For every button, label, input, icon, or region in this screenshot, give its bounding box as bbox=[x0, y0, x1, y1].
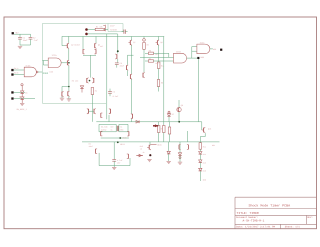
wire rail2 bbox=[96, 121, 202, 123]
net label MODE bbox=[43, 72, 49, 75]
svg-text:R12: R12 bbox=[140, 145, 143, 148]
resistor R10 bbox=[168, 127, 171, 134]
svg-text:22pF: 22pF bbox=[120, 65, 124, 68]
label R5 bbox=[72, 80, 78, 83]
transistor Q17 bbox=[147, 144, 151, 150]
transistor QC6 bbox=[115, 54, 117, 59]
svg-text:Q18: Q18 bbox=[208, 128, 211, 131]
diode D12 bbox=[199, 160, 202, 163]
wire TP2 to IC2A bbox=[14, 69, 25, 71]
junction C6 node bbox=[117, 50, 119, 52]
label IC1P bbox=[110, 25, 115, 28]
IC1P pin marks bbox=[103, 25, 105, 31]
label R14 bbox=[161, 65, 164, 68]
transistor Q5e bbox=[109, 108, 111, 114]
svg-text:Q9: Q9 bbox=[181, 104, 183, 107]
wire C6 column bbox=[117, 34, 119, 54]
svg-text:D7: D7 bbox=[172, 113, 174, 116]
svg-text:GND: GND bbox=[203, 179, 206, 182]
svg-text:SG-636: SG-636 bbox=[101, 126, 107, 129]
pad Q17 bbox=[149, 154, 151, 156]
junction row1 bbox=[119, 137, 121, 139]
label Q6 bbox=[98, 44, 100, 47]
wire TP4 to diodes bbox=[14, 91, 25, 93]
wire Q5e to rail2 bbox=[108, 115, 110, 122]
wire TP5 to diodes bbox=[14, 98, 35, 100]
label D13 bbox=[203, 170, 206, 173]
svg-text:IC1C: IC1C bbox=[200, 41, 206, 44]
facing transistor Q5a bbox=[87, 78, 89, 84]
label D11 bbox=[203, 153, 206, 156]
wire between pair bbox=[89, 110, 95, 112]
label X1 line2 bbox=[120, 129, 123, 132]
wire loop left vertical bbox=[41, 24, 43, 104]
wire R8 drop bbox=[158, 122, 160, 126]
svg-text:R11: R11 bbox=[203, 145, 206, 148]
diode D2 bbox=[21, 97, 24, 103]
junction rail2 left bbox=[178, 121, 180, 123]
title block document number label bbox=[236, 216, 258, 219]
wire IC1A input jog bbox=[42, 61, 48, 66]
transistor Q7 bbox=[129, 40, 132, 46]
resistor R11 bbox=[199, 143, 202, 150]
junction facing pair bbox=[89, 80, 91, 82]
transistor Q8 bbox=[156, 40, 159, 46]
wire D9 drop bbox=[179, 142, 181, 153]
wire R2 drop bbox=[143, 37, 145, 39]
svg-text:A-CH-TIMB-M-1: A-CH-TIMB-M-1 bbox=[243, 219, 265, 222]
led D7 bbox=[167, 111, 170, 122]
and gate IC1A bbox=[48, 58, 61, 68]
svg-text:4k7: 4k7 bbox=[100, 45, 103, 48]
wire Q2 base feed bbox=[62, 36, 67, 45]
label junction net bbox=[201, 56, 205, 59]
junction lower bar bbox=[68, 86, 70, 88]
ground G1 bbox=[18, 46, 22, 48]
transistor Q13 bbox=[127, 154, 129, 159]
wire R6 to jog bbox=[154, 52, 169, 54]
diode D13 bbox=[199, 168, 202, 171]
wire rail3 bbox=[82, 141, 220, 143]
label R7 bbox=[149, 58, 151, 61]
svg-text:10uF: 10uF bbox=[23, 39, 29, 42]
capacitor C1 bbox=[18, 38, 22, 46]
label IC1B bbox=[176, 51, 182, 54]
transistor Q3 bbox=[67, 60, 69, 66]
svg-text:R1 10k: R1 10k bbox=[96, 25, 104, 28]
ground G2 bbox=[20, 103, 24, 105]
label Q1 line2 bbox=[101, 129, 106, 132]
nand gate IC2A bbox=[24, 67, 38, 77]
label TP3 net bbox=[14, 72, 19, 75]
label IC1P part bbox=[110, 28, 118, 31]
label R1 bbox=[96, 25, 104, 28]
title block project name text bbox=[249, 203, 291, 207]
label Q2 bbox=[71, 43, 80, 46]
wire R14 down bbox=[158, 69, 160, 80]
transistor Q7c bbox=[130, 74, 132, 80]
wire loop top horizontal bbox=[42, 23, 123, 25]
pin TP1 +5V supply pad bbox=[12, 32, 14, 34]
wire Q3 emitter down bbox=[68, 66, 70, 92]
label row1 net bbox=[122, 137, 126, 140]
label Q17 l1 bbox=[140, 145, 143, 148]
transistor Q5c bbox=[87, 108, 89, 114]
wire TP1 to caps bbox=[14, 33, 31, 35]
label R6 value bbox=[155, 53, 158, 56]
wire R6 left bbox=[145, 52, 148, 54]
svg-text:D12: D12 bbox=[203, 161, 206, 164]
svg-text:4k7: 4k7 bbox=[155, 62, 158, 65]
wire chain end bbox=[199, 171, 201, 181]
junction pad IC1B net bbox=[197, 57, 199, 59]
label R11 bbox=[203, 145, 206, 148]
label chain end bbox=[203, 179, 206, 182]
wire QD emitter bbox=[127, 70, 129, 76]
pin VCC donut bbox=[85, 28, 88, 31]
svg-text:4k7: 4k7 bbox=[155, 53, 158, 56]
wire pair left drop bbox=[82, 36, 84, 49]
label Q9 bbox=[181, 104, 183, 107]
wire R8 down bbox=[158, 133, 160, 142]
svg-text:0.1uF: 0.1uF bbox=[113, 95, 119, 98]
wire R10 drop bbox=[169, 122, 171, 127]
wire gnd rail bbox=[88, 33, 118, 35]
transistor Q6 bbox=[95, 43, 97, 49]
wire loop bottom horizontal bbox=[42, 102, 106, 104]
wire Q8 drop bbox=[158, 36, 160, 40]
pin TP3 input pad bbox=[11, 73, 13, 75]
svg-text:REV:: REV: bbox=[307, 216, 313, 219]
svg-text:TITLE: TIMER: TITLE: TIMER bbox=[237, 211, 259, 215]
svg-text:Q7: Q7 bbox=[133, 41, 135, 44]
svg-text:OUT: OUT bbox=[111, 126, 114, 129]
diode D11 bbox=[199, 152, 202, 155]
transistor Q11 bbox=[127, 131, 129, 136]
label R4b bbox=[95, 90, 97, 93]
label Q8 bbox=[160, 41, 162, 44]
resistor R2 bbox=[143, 43, 146, 73]
svg-text:R7: R7 bbox=[149, 58, 151, 61]
svg-text:OSC: OSC bbox=[120, 129, 123, 132]
label C5 bbox=[113, 90, 119, 97]
wire IC1A output bbox=[61, 62, 67, 64]
label X1 line1 bbox=[120, 126, 122, 129]
label Q17 l2 bbox=[140, 148, 142, 151]
label TP2 net bbox=[14, 67, 19, 70]
diode D1 bbox=[21, 91, 24, 97]
svg-text:R2: R2 bbox=[147, 43, 149, 46]
label R2 bbox=[147, 43, 149, 46]
label rail3 net bbox=[120, 143, 125, 146]
wire R7 to IC1B in2 bbox=[154, 60, 174, 62]
svg-text:R4: R4 bbox=[95, 90, 97, 93]
wire TP3 to IC2A bbox=[14, 74, 25, 76]
label D1 bbox=[25, 91, 28, 94]
label rail3 right net bbox=[212, 144, 215, 147]
title block date text bbox=[236, 225, 276, 228]
diode D8 bbox=[167, 151, 170, 161]
transistor Q7b bbox=[143, 72, 145, 78]
wire Q17 drop bbox=[149, 142, 151, 145]
wire U right bbox=[129, 158, 131, 166]
label R2b bbox=[161, 82, 163, 85]
svg-text:Q8: Q8 bbox=[160, 41, 162, 44]
wire cap bottoms bbox=[20, 44, 31, 46]
title block sheet text bbox=[285, 225, 301, 228]
and gate IC1B bbox=[174, 53, 187, 63]
wire R10 down bbox=[169, 134, 171, 142]
label Q17 net bbox=[157, 144, 161, 147]
label C9 value bbox=[117, 159, 122, 165]
capacitor C2 bbox=[29, 38, 33, 46]
wire IC1C input jog bbox=[192, 47, 197, 59]
wire chain 2 bbox=[199, 154, 201, 160]
lamp LP1 bbox=[143, 39, 146, 42]
wire IC1B output bbox=[187, 57, 198, 59]
diode D4 bbox=[80, 86, 83, 93]
wire chain 3 bbox=[199, 163, 201, 169]
wire R1 to IC1P bbox=[105, 29, 108, 31]
pin TP2 input pad bbox=[11, 69, 13, 71]
pin GND donut bbox=[85, 33, 88, 36]
svg-text:Sheet: 1/1: Sheet: 1/1 bbox=[285, 225, 301, 228]
wire Q4a drop bbox=[61, 87, 63, 92]
wire center column bbox=[89, 55, 91, 77]
wire U bottom bbox=[99, 165, 130, 167]
and gate IC1C bbox=[197, 44, 210, 54]
transistor Q7d bbox=[131, 113, 133, 119]
transistor Q6b bracket bbox=[94, 49, 96, 54]
label IC1A part bbox=[49, 71, 53, 74]
label D12 bbox=[203, 161, 206, 164]
wire rail2 end drop bbox=[201, 122, 203, 130]
title block document number value bbox=[243, 219, 265, 222]
transistor Q4b bbox=[68, 91, 70, 97]
svg-text:D11: D11 bbox=[203, 153, 206, 156]
logic box X1 bbox=[119, 124, 128, 131]
transistor Q5d bbox=[94, 108, 96, 114]
resistor R1 bbox=[95, 28, 105, 30]
transistor Q5 bracket bbox=[83, 49, 85, 54]
capacitor C6 bbox=[115, 63, 119, 68]
transistor Q10 bbox=[101, 131, 103, 136]
label output net bbox=[213, 48, 216, 51]
title block grid bbox=[235, 197, 317, 229]
wire Q7c emitter bbox=[130, 79, 132, 113]
transistor Q15 bbox=[179, 145, 181, 150]
resistor R6 bbox=[148, 52, 153, 54]
transistor Q18 bbox=[202, 127, 205, 133]
label C9 lines bbox=[89, 143, 93, 149]
label Q1 line1 bbox=[101, 126, 107, 129]
wire bracket row1 bar bbox=[101, 137, 129, 139]
oscillator box Q1 bbox=[99, 124, 116, 131]
svg-text:R9: R9 bbox=[161, 82, 163, 85]
svg-text:Q2 BC847: Q2 BC847 bbox=[71, 43, 80, 46]
svg-text:VC: VC bbox=[111, 129, 113, 132]
label C2 value bbox=[33, 36, 39, 42]
svg-text:IC1B: IC1B bbox=[176, 51, 182, 54]
resistor R4b bbox=[91, 88, 94, 104]
svg-text:7408: 7408 bbox=[49, 71, 53, 74]
wire C1 drop bbox=[19, 34, 21, 37]
label Q1 pins bbox=[111, 126, 114, 132]
capacitor C5 bbox=[108, 89, 112, 97]
wire R7 left bbox=[145, 60, 148, 62]
label C1 value bbox=[23, 36, 29, 42]
label D10 bbox=[143, 151, 145, 154]
transistor Q4a bbox=[62, 91, 64, 97]
wire VCC rail top bbox=[62, 36, 164, 38]
svg-text:N$9: N$9 bbox=[213, 48, 216, 51]
transistor Q16 bbox=[187, 145, 189, 150]
wire QD corner bbox=[128, 55, 134, 65]
wire Q7 drop bbox=[130, 37, 132, 41]
wire IC2A output bbox=[38, 71, 42, 73]
junction Q2-IC1A bbox=[68, 62, 70, 64]
diode D5 on rail2 bbox=[136, 121, 139, 124]
capacitor C3 bbox=[122, 30, 128, 34]
resistor R8 bbox=[157, 126, 160, 133]
transistor Q2 bbox=[67, 43, 69, 49]
ground G8 bbox=[147, 160, 151, 162]
svg-text:IC1A: IC1A bbox=[52, 54, 58, 57]
svg-text:N$12: N$12 bbox=[120, 143, 125, 146]
varistor symbol above diodes bbox=[21, 84, 23, 91]
wire donut to R1 bbox=[88, 29, 95, 31]
wire Q17 diag bbox=[151, 143, 157, 145]
wire mid vertical bbox=[106, 34, 108, 119]
svg-text:.1uF: .1uF bbox=[33, 39, 39, 42]
ground G4 bbox=[67, 96, 71, 101]
svg-text:10uF: 10uF bbox=[89, 145, 93, 148]
svg-text:N$3: N$3 bbox=[212, 144, 215, 147]
svg-text:4.7uF: 4.7uF bbox=[117, 159, 122, 162]
wire pair emitter bar bbox=[83, 54, 96, 56]
wire chain 1 bbox=[199, 149, 201, 151]
resistor R14 bbox=[157, 62, 160, 69]
capacitor C9 bbox=[112, 142, 116, 167]
label C6 bbox=[120, 62, 124, 68]
label IC1A bbox=[52, 54, 58, 57]
wire Q8 emitter bbox=[158, 45, 160, 62]
wire right long column bbox=[163, 37, 165, 126]
pin TP6 output pad bbox=[220, 49, 222, 51]
svg-text:R5 10k: R5 10k bbox=[72, 80, 78, 83]
svg-text:1k: 1k bbox=[140, 148, 142, 151]
diode D10 horizontal bbox=[136, 154, 143, 157]
label R7 value bbox=[155, 62, 158, 65]
svg-text:D13: D13 bbox=[203, 170, 206, 173]
label IC1C bbox=[200, 41, 206, 44]
wire Q14 drop bbox=[187, 131, 189, 142]
wire Q2 collector bbox=[68, 36, 70, 43]
wire jog to IC1B in1 bbox=[140, 53, 174, 57]
wire down to rail2 bbox=[197, 59, 199, 122]
wire U left bbox=[98, 153, 100, 166]
transistor Q12 bbox=[96, 149, 98, 154]
label Q18 bbox=[208, 128, 211, 131]
transistor Q9 bbox=[177, 100, 181, 122]
label IC2A bbox=[25, 65, 31, 68]
wire C2 drop bbox=[30, 34, 32, 37]
wire pair right drop bbox=[95, 36, 97, 43]
led D9 bbox=[178, 153, 181, 162]
wire Q7d to rail2 bbox=[130, 119, 132, 122]
label R8 bbox=[161, 128, 164, 131]
svg-text:C9: C9 bbox=[89, 143, 91, 146]
power box IC1P outline bbox=[108, 24, 123, 32]
label switch net bbox=[17, 108, 28, 111]
wire pair to rail2 bbox=[91, 103, 93, 122]
facing transistor Q5b bbox=[92, 78, 94, 84]
wire lower pair bar bbox=[62, 86, 69, 88]
ground G7 bbox=[178, 162, 182, 164]
wire D8 drop bbox=[168, 142, 170, 151]
svg-text:N$15: N$15 bbox=[157, 144, 161, 147]
diode D6 bbox=[153, 125, 158, 127]
transistor QE bbox=[101, 113, 103, 118]
svg-text:+2V0: +2V0 bbox=[122, 137, 126, 140]
label Q7 bbox=[133, 41, 135, 44]
label D2 bbox=[19, 96, 24, 99]
svg-text:IC2A: IC2A bbox=[25, 65, 31, 68]
crystal pins between boxes bbox=[117, 126, 118, 131]
title block TITLE row text bbox=[237, 211, 259, 215]
ground G5 bbox=[112, 168, 116, 170]
svg-text:Shock Mode Timer PCBA: Shock Mode Timer PCBA bbox=[249, 203, 291, 207]
title block REV label bbox=[307, 216, 313, 219]
svg-text:1k: 1k bbox=[143, 151, 145, 154]
wire Q2 emitter down bbox=[68, 49, 70, 60]
label Q6 value bbox=[100, 45, 103, 48]
wire Q18 emitter bbox=[200, 133, 205, 143]
resistor R2b bbox=[157, 80, 160, 92]
label D7 bbox=[172, 113, 174, 116]
svg-text:X1: X1 bbox=[120, 126, 122, 129]
wire IC1C output bbox=[210, 48, 213, 50]
ground G3 bbox=[60, 96, 64, 100]
resistor R7 bbox=[148, 60, 153, 62]
svg-text:Date: 1/24/2017 3:17:01 PM: Date: 1/24/2017 3:17:01 PM bbox=[236, 225, 276, 228]
pin TP4 input pad bbox=[11, 91, 13, 93]
label R6 bbox=[149, 49, 152, 52]
transistor QD bbox=[127, 65, 129, 71]
pin TP5 input pad bbox=[11, 97, 13, 99]
svg-text:SW_MODE_1: SW_MODE_1 bbox=[17, 108, 28, 111]
svg-text:74HC08: 74HC08 bbox=[110, 28, 118, 31]
wire Q7 emitter long bbox=[130, 45, 132, 74]
resistor R13 column bbox=[163, 126, 166, 142]
label +5V bbox=[15, 31, 19, 34]
junction rail3 mid bbox=[117, 141, 119, 143]
wire QC6 to C6 bbox=[117, 59, 119, 63]
svg-text:D2 D4: D2 D4 bbox=[19, 96, 24, 99]
ground G6 bbox=[167, 161, 171, 163]
